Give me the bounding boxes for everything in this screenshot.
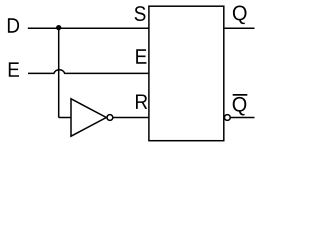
label E input	[9, 62, 19, 76]
label D input	[8, 18, 19, 32]
junction dot on D wire	[56, 25, 61, 30]
SR latch box U2	[149, 6, 224, 141]
wire Qbar output	[230, 117, 254, 119]
inverter U1	[71, 99, 113, 136]
inversion bubble on Qbar output	[224, 115, 230, 121]
wire inverter output to R	[113, 117, 149, 119]
label Qbar output	[233, 97, 247, 116]
wire E with hop over vertical wire	[28, 70, 149, 74]
wire junction to inverter input	[59, 117, 71, 119]
wire vertical from junction	[58, 28, 60, 117]
pin label S	[135, 6, 146, 21]
pin label E	[136, 49, 146, 63]
pin label R	[136, 94, 147, 108]
overline of Qbar	[233, 94, 248, 96]
wire D to S	[28, 27, 149, 29]
wire Q output	[224, 27, 255, 29]
label Q output	[233, 6, 247, 25]
